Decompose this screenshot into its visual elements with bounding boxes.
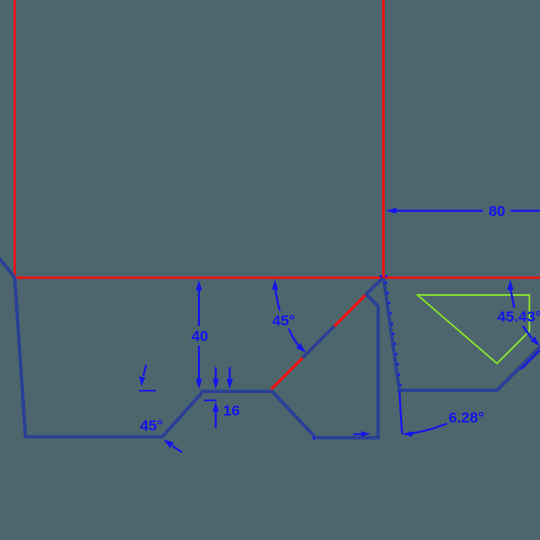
wire: red 45-deg chamfer segment upper	[334, 294, 366, 326]
node: green quad top edge	[418, 295, 530, 364]
dimension: 40 vertical double arrow	[198, 289, 200, 381]
dimension: 16 with up arrow and dash	[204, 399, 217, 401]
wire: 45-deg chamfer bottom-left	[162, 393, 201, 437]
wire: right shape bottom horizontal	[398, 389, 498, 392]
dimension: 45 deg angular mid	[272, 279, 278, 289]
dimension: 45.43 extension along diagonal	[521, 351, 540, 370]
svg-text:45.43°: 45.43°	[497, 309, 540, 326]
wire: horizontal shelf edge y=391	[201, 390, 272, 393]
wire: middle shape lower-left diagonal	[271, 391, 315, 438]
wire: top blue segment of 45-deg line at vertex	[366, 278, 383, 295]
svg-text:80: 80	[488, 203, 505, 220]
dimension: 80 horizontal with left arrow	[395, 210, 540, 212]
dimension: selection dots along tilted edge	[313, 275, 402, 439]
wire: blue mid segment on 45-deg line	[303, 326, 335, 358]
wire: middle shape right vertical edge	[376, 306, 379, 439]
wire: red rectangle right vertical line	[382, 0, 385, 279]
svg-text:6.28°: 6.28°	[449, 410, 485, 427]
svg-text:45°: 45°	[140, 418, 163, 435]
wire: right shape 45-deg diagonal	[497, 346, 540, 390]
dimension: 45.43 deg angular right	[507, 280, 513, 290]
wire: left tilted edge	[15, 277, 26, 436]
wire: bottom-left horizontal edge	[24, 435, 163, 438]
wire: red 45-deg chamfer segment lower	[271, 358, 303, 390]
dimension: small leader arrow with dash (left)	[143, 365, 146, 376]
dimension: 6.28 extension line below corner	[399, 391, 402, 434]
svg-text:40: 40	[191, 328, 208, 345]
wire: right shape tilted left edge (6.28 deg)	[384, 278, 400, 390]
wire: red horizontal line	[14, 277, 540, 279]
wire: middle shape bottom horizontal	[315, 436, 380, 439]
wire: middle shape notch diagonal	[366, 294, 378, 306]
dimension: small down arrow pair	[216, 367, 230, 380]
dimension: small right arrow above middle bottom edge	[353, 433, 362, 435]
svg-text:45°: 45°	[272, 313, 295, 330]
wire: red rectangle left vertical line	[14, 0, 16, 278]
svg-text:16: 16	[223, 403, 240, 420]
wire: blue diagonal entering top-left corner	[0, 257, 15, 277]
